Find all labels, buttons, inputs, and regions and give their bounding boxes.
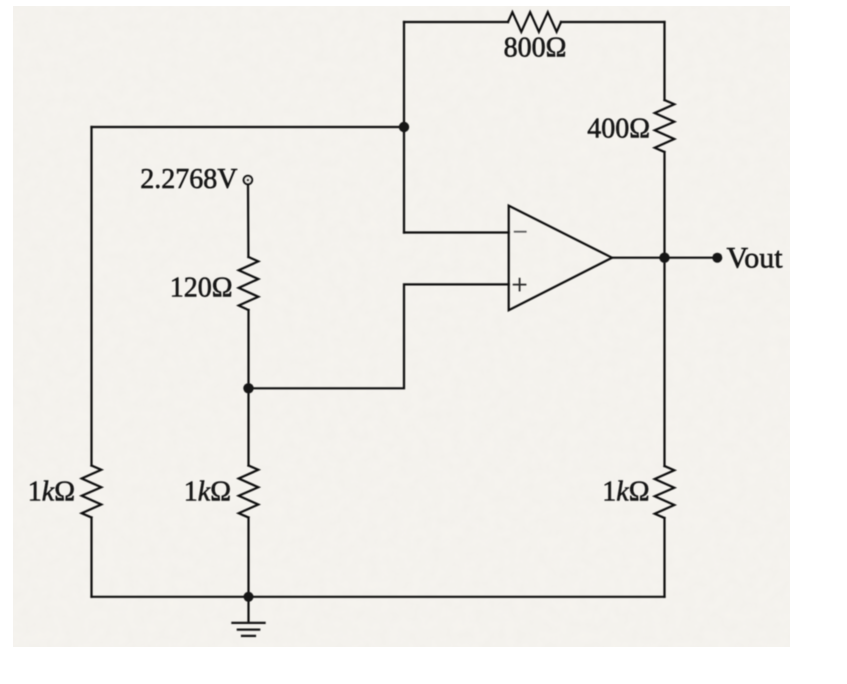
resistor R5 400ohm zigzag — [655, 100, 675, 152]
resistor R4 1kohm middle zigzag — [239, 466, 259, 518]
svg-text:1kΩ: 1kΩ — [28, 477, 75, 508]
node source terminal open circle — [244, 176, 252, 184]
wire right rail upper — [663, 22, 665, 100]
svg-text:1kΩ: 1kΩ — [184, 477, 231, 508]
node junction at feedback tap — [399, 122, 409, 132]
svg-text:800Ω: 800Ω — [504, 33, 567, 64]
ground stub wire — [247, 597, 249, 623]
wire op-amp output — [612, 257, 665, 259]
svg-text:120Ω: 120Ω — [170, 273, 233, 304]
op-amp U1 triangle — [509, 206, 612, 311]
ground symbol — [231, 623, 265, 636]
wire Vout stub — [665, 257, 718, 259]
wire plus input — [249, 284, 509, 388]
svg-text:400Ω: 400Ω — [587, 114, 650, 145]
node junction at plus divider — [243, 383, 253, 393]
svg-text:2.2768V: 2.2768V — [140, 164, 237, 195]
wire right rail mid — [663, 152, 665, 466]
wire left rail upper — [90, 127, 92, 466]
resistor R6 1kohm right zigzag — [655, 466, 675, 518]
wire bottom rail — [92, 596, 665, 598]
node junction at op-amp output — [659, 253, 669, 263]
wire top rail left segment — [404, 21, 508, 23]
wire minus input — [404, 231, 509, 233]
op-amp plus sign — [513, 278, 527, 292]
resistor R3 120ohm zigzag — [239, 257, 259, 310]
svg-text:Vout: Vout — [727, 242, 784, 275]
wire source drop — [247, 184, 250, 257]
node junction at ground — [244, 592, 254, 602]
wire left rail lower — [90, 518, 92, 597]
resistor R1 800ohm zigzag — [508, 12, 561, 32]
wire top rail right segment — [561, 21, 665, 23]
wire right rail lower — [663, 518, 665, 597]
op-amp minus sign — [514, 231, 527, 233]
wire middle lower to ground rail — [247, 518, 249, 597]
wire middle between junction and 1kohm — [247, 388, 249, 465]
svg-text:1kΩ: 1kΩ — [602, 477, 649, 508]
wire horizontal feedback tap — [92, 126, 405, 128]
node Vout terminal dot — [712, 253, 722, 263]
wire left drop from top rail to minus node — [403, 22, 405, 233]
resistor R2 1kohm left zigzag — [82, 466, 102, 518]
wire middle between 120ohm and junction — [247, 310, 249, 388]
